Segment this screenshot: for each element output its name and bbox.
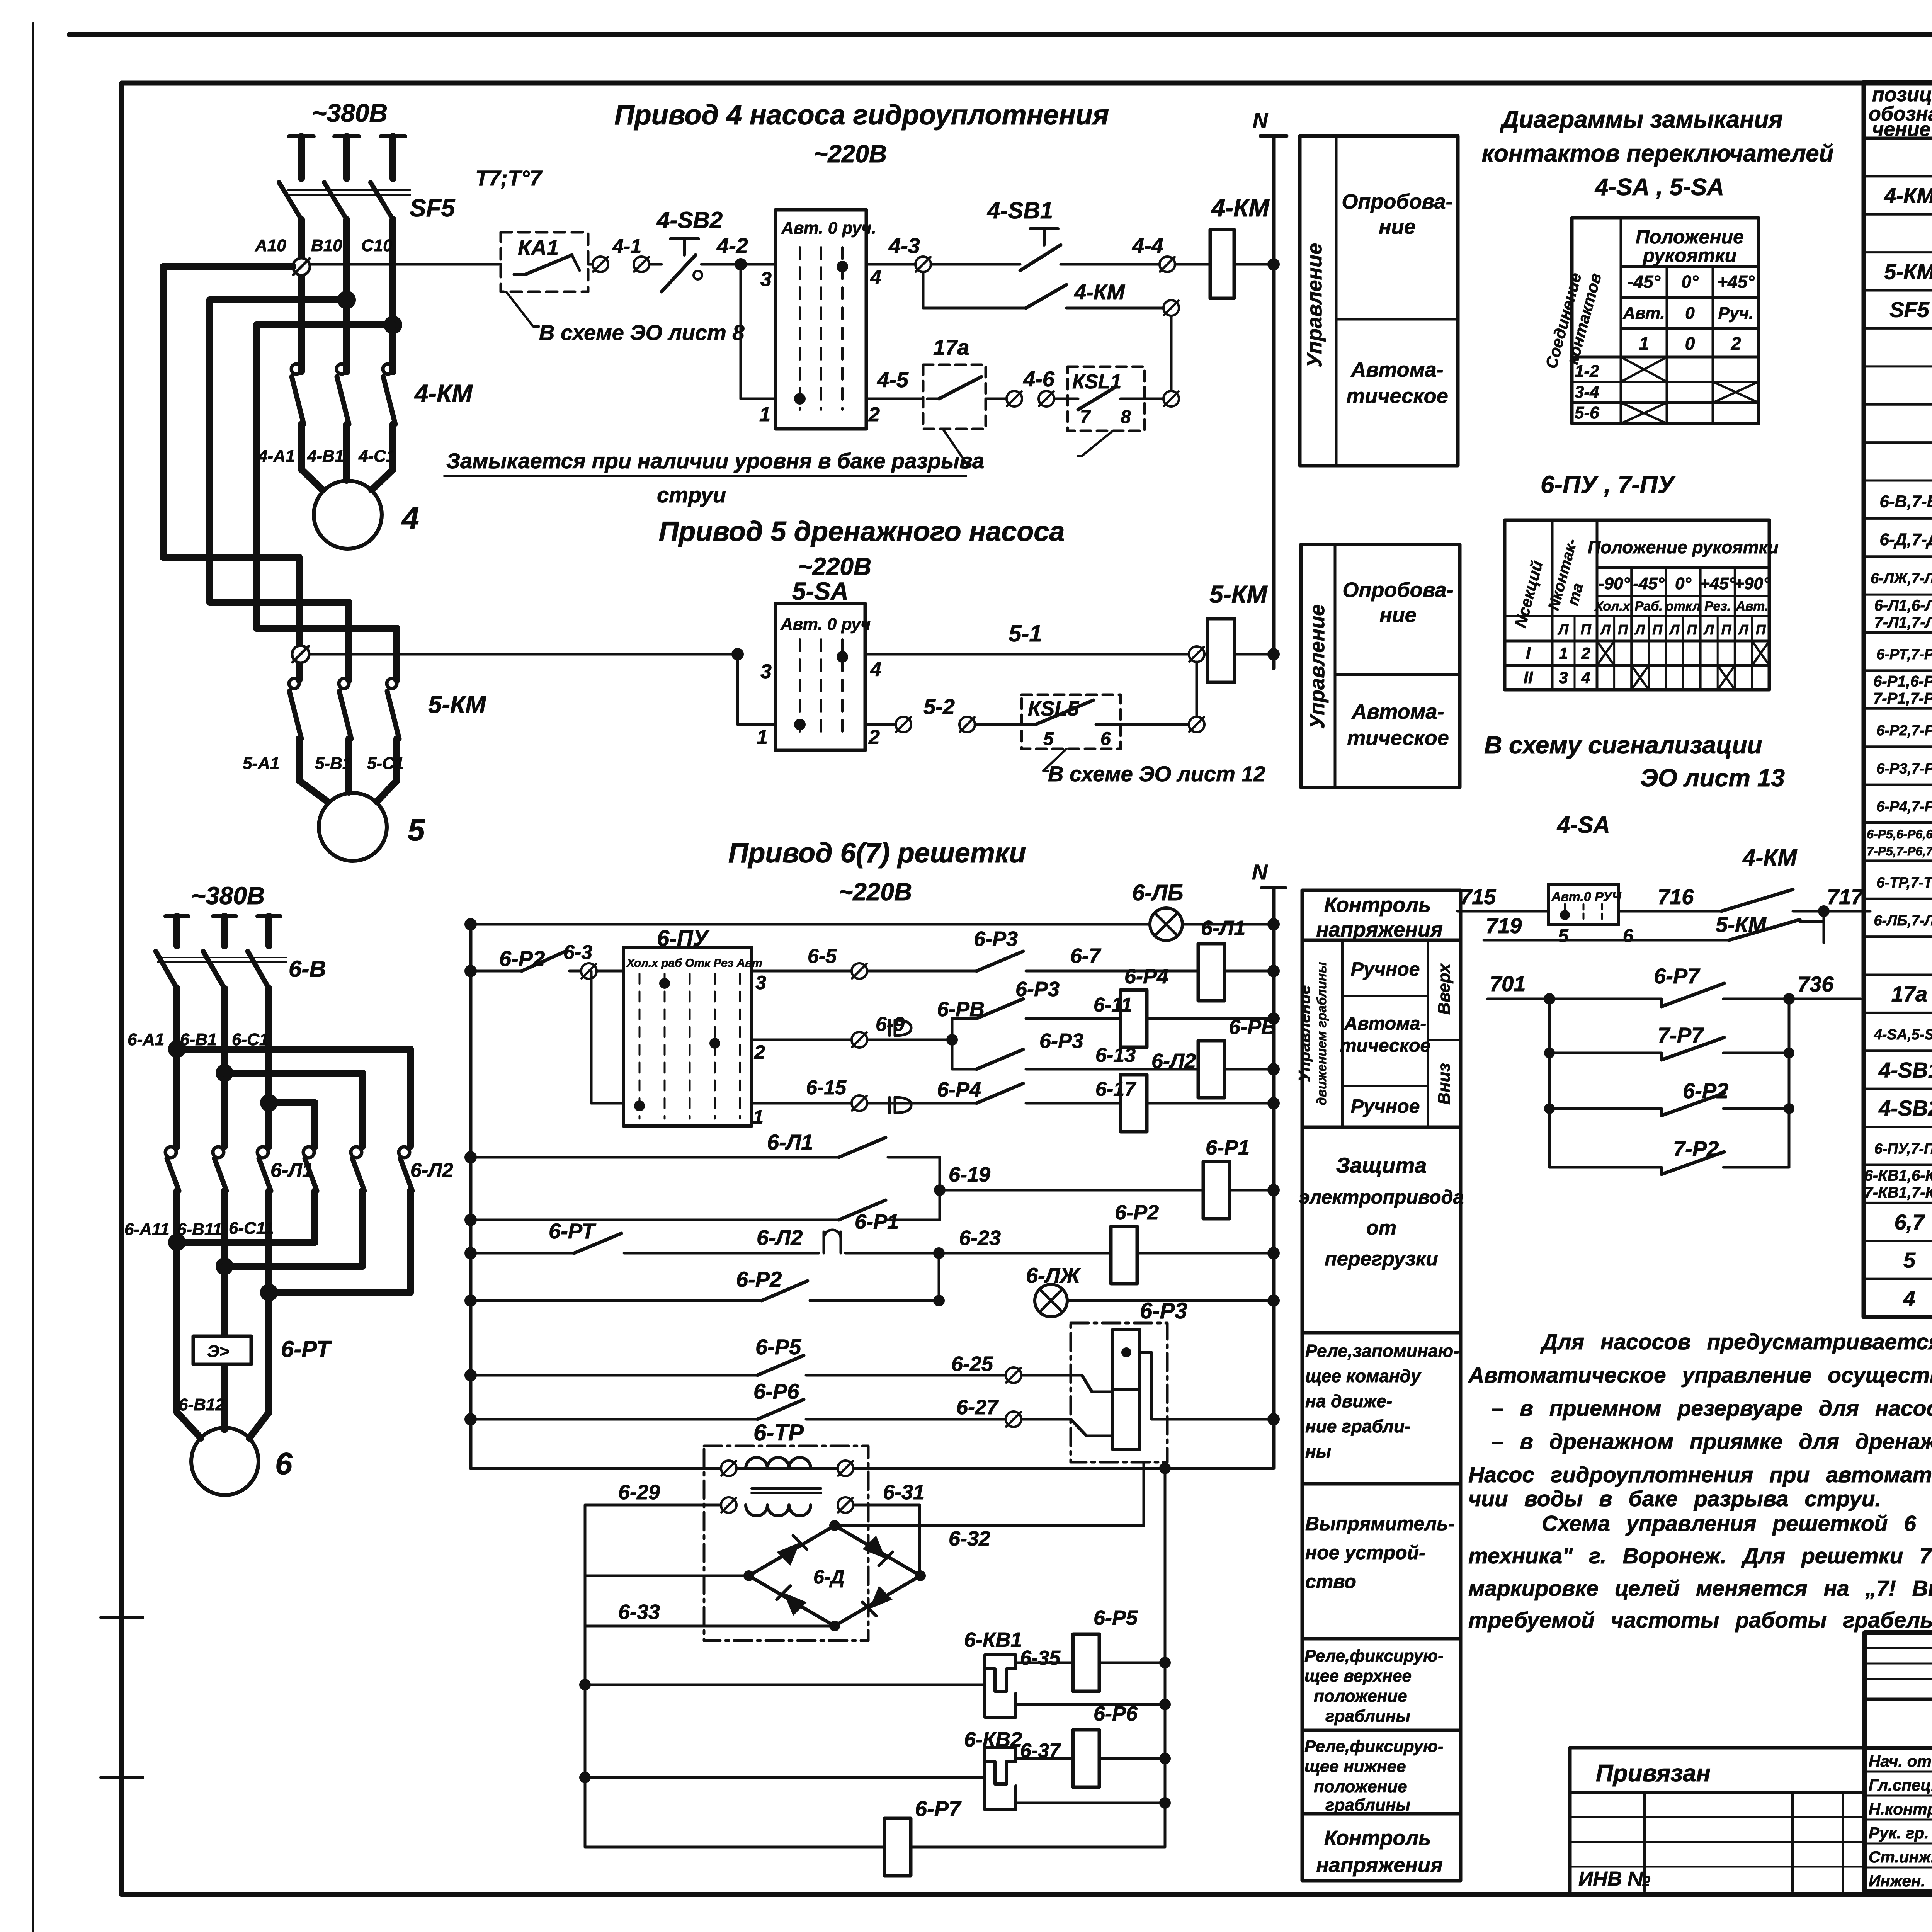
svg-text:тическое: тическое (1340, 1036, 1430, 1056)
svg-text:I: I (1526, 644, 1531, 663)
svg-text:2: 2 (868, 403, 880, 426)
svg-text:3-4: 3-4 (1575, 383, 1599, 401)
svg-text:напряжения: напряжения (1316, 918, 1443, 941)
svg-text:3: 3 (760, 660, 772, 683)
svg-text:Автома-: Автома- (1351, 700, 1444, 723)
svg-text:Опробова-: Опробова- (1342, 578, 1453, 602)
svg-text:контактов переключателей: контактов переключателей (1482, 140, 1834, 167)
svg-text:Гл.спец.: Гл.спец. (1869, 1776, 1932, 1794)
svg-text:напряжения: напряжения (1316, 1854, 1443, 1877)
svg-text:перегрузки: перегрузки (1325, 1248, 1438, 1270)
svg-text:6-27: 6-27 (956, 1396, 999, 1419)
svg-text:7-Р5,7-Р6,7-Р7: 7-Р5,7-Р6,7-Р7 (1867, 844, 1932, 858)
svg-text:6-Д: 6-Д (813, 1566, 845, 1588)
svg-text:Управление: Управление (1295, 985, 1313, 1082)
svg-text:6-Р2,7-Р2: 6-Р2,7-Р2 (1876, 723, 1932, 739)
svg-text:717: 717 (1827, 884, 1864, 909)
svg-text:4: 4 (870, 658, 881, 681)
svg-text:4-КМ: 4-КМ (1211, 194, 1270, 222)
svg-text:требуемой частоты работы гра: требуемой частоты работы грабель и опред… (1468, 1608, 1932, 1633)
svg-text:3: 3 (755, 972, 766, 993)
svg-text:7: 7 (1080, 407, 1091, 427)
svg-text:~220В: ~220В (838, 878, 912, 906)
svg-text:6: 6 (275, 1446, 293, 1481)
svg-text:1: 1 (759, 403, 770, 426)
svg-text:5: 5 (1903, 1248, 1916, 1272)
svg-text:6-Р5,6-Р6,6-Р7: 6-Р5,6-Р6,6-Р7 (1867, 827, 1932, 841)
svg-text:Схема управления решеткой 6: Схема управления решеткой 6 приведена на… (1542, 1511, 1932, 1536)
svg-text:П: П (1721, 622, 1732, 638)
svg-text:7-Л1,7-Л2: 7-Л1,7-Л2 (1874, 614, 1932, 631)
svg-text:Ручное: Ручное (1351, 958, 1420, 980)
svg-text:6-Л2: 6-Л2 (410, 1159, 453, 1182)
svg-text:6-23: 6-23 (959, 1226, 1001, 1250)
svg-text:4-6: 4-6 (1023, 367, 1055, 391)
svg-text:Н.контр.: Н.контр. (1869, 1800, 1932, 1818)
svg-text:Вниз: Вниз (1435, 1063, 1454, 1105)
svg-text:6-Р2: 6-Р2 (1683, 1078, 1728, 1103)
svg-text:Управление: Управление (1303, 243, 1326, 367)
svg-text:6-В,7-В: 6-В,7-В (1879, 492, 1932, 511)
svg-text:6-РТ: 6-РТ (549, 1219, 597, 1243)
svg-text:Защита: Защита (1336, 1153, 1427, 1177)
svg-text:6-Р1: 6-Р1 (855, 1210, 899, 1233)
svg-text:ЭО лист 13: ЭО лист 13 (1640, 764, 1785, 792)
svg-text:Реле,фиксирую-: Реле,фиксирую- (1304, 1646, 1444, 1665)
svg-text:17а: 17а (1891, 982, 1927, 1006)
svg-text:положение: положение (1314, 1687, 1407, 1706)
svg-text:5-SА: 5-SА (792, 577, 849, 605)
svg-text:6-Р5: 6-Р5 (1094, 1606, 1138, 1629)
svg-text:6-С11: 6-С11 (229, 1219, 274, 1238)
svg-text:6-Р6: 6-Р6 (753, 1379, 799, 1403)
svg-text:Авт. 0 руч.: Авт. 0 руч. (781, 219, 876, 238)
svg-text:1: 1 (1559, 644, 1568, 662)
svg-text:Инжен.: Инжен. (1869, 1872, 1925, 1890)
svg-text:4: 4 (1581, 668, 1590, 687)
svg-text:Рез.: Рез. (1704, 599, 1731, 614)
svg-text:КА1: КА1 (518, 235, 559, 260)
svg-text:рукоятки: рукоятки (1642, 245, 1737, 266)
svg-text:Диаграммы замыкания: Диаграммы замыкания (1500, 106, 1783, 133)
svg-text:4-5: 4-5 (877, 367, 909, 392)
svg-text:4-4: 4-4 (1132, 233, 1163, 258)
svg-text:6-Р4,7-Р4: 6-Р4,7-Р4 (1876, 799, 1932, 815)
svg-text:техника" г. Воронеж. Для реш: техника" г. Воронеж. Для решетки 7 схема… (1468, 1544, 1932, 1568)
svg-text:П: П (1756, 622, 1766, 638)
svg-text:6-КВ1,6-КВ2: 6-КВ1,6-КВ2 (1864, 1167, 1932, 1184)
svg-text:-45°: -45° (1628, 272, 1660, 292)
svg-text:Т7;Т°7: Т7;Т°7 (475, 166, 543, 190)
svg-text:тическое: тическое (1347, 726, 1449, 750)
svg-text:6-Л1: 6-Л1 (270, 1159, 313, 1182)
svg-text:4: 4 (870, 266, 881, 289)
svg-text:3: 3 (760, 268, 772, 291)
svg-text:1: 1 (753, 1106, 764, 1128)
svg-text:щее верхнее: щее верхнее (1304, 1667, 1412, 1685)
svg-text:4-SВ1: 4-SВ1 (1878, 1058, 1932, 1082)
svg-text:4-SВ2: 4-SВ2 (1878, 1096, 1932, 1120)
svg-text:6-19: 6-19 (949, 1163, 990, 1186)
svg-text:~220В: ~220В (798, 553, 871, 580)
svg-text:4-SВ1: 4-SВ1 (987, 197, 1053, 223)
svg-text:В схему сигнализации: В схему сигнализации (1484, 731, 1762, 759)
svg-text:N: N (1253, 109, 1268, 132)
svg-text:0: 0 (1685, 304, 1695, 323)
svg-text:С10: С10 (361, 236, 393, 255)
svg-text:Реле,фиксирую-: Реле,фиксирую- (1304, 1737, 1444, 1756)
svg-text:Авт. 0 руч: Авт. 0 руч (780, 615, 871, 634)
svg-text:5: 5 (1558, 926, 1569, 946)
svg-text:4-3: 4-3 (888, 233, 920, 258)
svg-text:Авт.: Авт. (1622, 304, 1665, 323)
svg-text:электропривода: электропривода (1299, 1186, 1464, 1208)
svg-text:6-КВ1: 6-КВ1 (964, 1628, 1022, 1651)
svg-text:17а: 17а (933, 335, 969, 359)
svg-text:4-А1: 4-А1 (258, 447, 295, 466)
svg-text:-90°: -90° (1599, 574, 1630, 593)
svg-text:Ст.инж.: Ст.инж. (1869, 1848, 1932, 1866)
svg-text:2: 2 (1581, 644, 1590, 662)
svg-text:Л: Л (1557, 622, 1569, 638)
svg-text:Реле,запоминаю-: Реле,запоминаю- (1305, 1341, 1459, 1361)
svg-text:ние: ние (1379, 215, 1416, 238)
svg-text:6-Р3,7-Р3: 6-Р3,7-Р3 (1876, 760, 1932, 777)
svg-text:ное устрой-: ное устрой- (1305, 1542, 1425, 1563)
svg-text:Привязан: Привязан (1596, 1760, 1711, 1787)
svg-text:4-1: 4-1 (612, 235, 641, 258)
svg-text:Л: Л (1668, 622, 1680, 638)
svg-text:0°: 0° (1675, 574, 1691, 593)
svg-text:6-ЛЖ,7-ЛЖ: 6-ЛЖ,7-ЛЖ (1871, 570, 1932, 587)
svg-text:Положение рукоятки: Положение рукоятки (1588, 537, 1779, 557)
svg-text:5-КМ: 5-КМ (1209, 580, 1268, 608)
svg-text:716: 716 (1658, 884, 1694, 909)
svg-text:+45°: +45° (1717, 272, 1755, 292)
svg-text:2: 2 (754, 1041, 765, 1063)
svg-text:6-ТР: 6-ТР (753, 1420, 804, 1446)
svg-text:6-Л1,6-Л2: 6-Л1,6-Л2 (1874, 597, 1932, 614)
svg-text:4-В1: 4-В1 (307, 447, 344, 466)
svg-text:6-Д,7-Д: 6-Д,7-Д (1879, 530, 1932, 549)
svg-text:– в дренажном приямке для д: – в дренажном приямке для дренажного нас… (1492, 1429, 1932, 1454)
svg-text:2: 2 (1731, 333, 1741, 354)
svg-text:Хол.х.: Хол.х. (1594, 599, 1634, 614)
svg-text:5-КМ: 5-КМ (1884, 259, 1932, 284)
svg-text:ство: ство (1305, 1571, 1356, 1592)
svg-text:движением граблины: движением граблины (1315, 962, 1329, 1105)
svg-text:В схеме ЭО лист 12: В схеме ЭО лист 12 (1048, 762, 1265, 786)
svg-text:6-17: 6-17 (1095, 1078, 1136, 1100)
svg-text:6-Р3: 6-Р3 (1015, 978, 1060, 1001)
svg-text:струи: струи (657, 483, 726, 507)
svg-text:6-Р7: 6-Р7 (915, 1796, 962, 1821)
svg-text:715: 715 (1460, 884, 1496, 909)
svg-text:4-КМ: 4-КМ (1884, 184, 1932, 208)
svg-text:Насос гидроуплотнения при а: Насос гидроуплотнения при автоматическом… (1468, 1463, 1932, 1487)
svg-text:Опробова-: Опробова- (1342, 190, 1452, 213)
svg-text:0°: 0° (1682, 272, 1699, 292)
svg-text:7-Р1,7-РВ: 7-Р1,7-РВ (1873, 690, 1932, 707)
svg-text:Авт.0 РУЧ: Авт.0 РУЧ (1551, 889, 1622, 904)
svg-text:Привод 4 насоса гидроуплот: Привод 4 насоса гидроуплотнения (614, 100, 1109, 131)
svg-text:-45°: -45° (1633, 574, 1665, 593)
svg-text:N: N (1252, 860, 1268, 884)
svg-text:5: 5 (408, 813, 425, 847)
svg-text:6-33: 6-33 (618, 1600, 660, 1624)
svg-text:6-32: 6-32 (949, 1527, 990, 1550)
svg-text:5-1: 5-1 (1009, 621, 1042, 646)
svg-text:Рук. гр.: Рук. гр. (1869, 1824, 1929, 1842)
svg-text:Привод 5 дренажного насос: Привод 5 дренажного насоса (659, 516, 1065, 547)
svg-text:Л: Л (1600, 622, 1611, 638)
svg-text:6,7: 6,7 (1895, 1210, 1926, 1234)
svg-text:6-Р1: 6-Р1 (1206, 1136, 1250, 1159)
svg-text:6-Л1: 6-Л1 (1201, 917, 1245, 940)
svg-text:тическое: тическое (1346, 384, 1448, 408)
svg-text:6-ЛБ: 6-ЛБ (1132, 880, 1183, 905)
svg-text:маркировке целей меняется н: маркировке целей меняется на „7! Выдержк… (1468, 1576, 1932, 1601)
svg-text:736: 736 (1798, 972, 1834, 996)
svg-text:6-Р3: 6-Р3 (1039, 1029, 1083, 1053)
svg-text:4-КМ: 4-КМ (1742, 845, 1798, 871)
svg-text:6-ПУ,7-ПУ: 6-ПУ,7-ПУ (1874, 1141, 1932, 1157)
svg-text:701: 701 (1490, 971, 1526, 996)
svg-text:~380В: ~380В (312, 99, 388, 127)
svg-text:0: 0 (1685, 333, 1695, 354)
svg-text:чение: чение (1872, 118, 1930, 141)
svg-text:6-Р5: 6-Р5 (755, 1335, 801, 1359)
svg-text:7-Р2: 7-Р2 (1673, 1136, 1719, 1161)
svg-text:SF5: SF5 (1889, 298, 1930, 322)
svg-text:ны: ны (1305, 1441, 1331, 1461)
svg-text:6-А11: 6-А11 (124, 1220, 170, 1239)
svg-text:В схеме ЭО лист 8: В схеме ЭО лист 8 (539, 320, 745, 345)
svg-text:5-6: 5-6 (1575, 403, 1599, 422)
svg-text:ние: ние (1379, 604, 1417, 627)
svg-text:Привод 6(7) решетки: Привод 6(7) решетки (728, 838, 1026, 869)
svg-text:6-5: 6-5 (808, 945, 837, 968)
svg-text:Автома-: Автома- (1350, 358, 1443, 381)
svg-text:Управление: Управление (1306, 604, 1329, 729)
svg-text:П: П (1687, 622, 1697, 638)
svg-text:6-В12: 6-В12 (179, 1395, 225, 1414)
svg-text:5-А1: 5-А1 (243, 754, 279, 773)
svg-text:~380В: ~380В (191, 882, 265, 910)
svg-text:4-2: 4-2 (716, 233, 748, 258)
svg-text:5-КМ: 5-КМ (428, 690, 486, 718)
svg-text:6-Р6: 6-Р6 (1094, 1702, 1138, 1725)
svg-text:Нач. отд: Нач. отд (1869, 1752, 1932, 1770)
svg-text:6-РТ: 6-РТ (281, 1336, 332, 1362)
svg-text:Авт.: Авт. (1735, 599, 1768, 614)
svg-text:7-КВ1,7-КВ2: 7-КВ1,7-КВ2 (1864, 1184, 1932, 1201)
svg-text:6-Р2: 6-Р2 (736, 1267, 782, 1291)
svg-text:6-Р4: 6-Р4 (1124, 965, 1168, 988)
svg-text:откл: откл (1666, 599, 1701, 614)
svg-text:6-В11: 6-В11 (177, 1220, 222, 1239)
svg-text:6-3: 6-3 (563, 941, 592, 964)
svg-text:2: 2 (868, 726, 880, 748)
svg-text:3: 3 (1559, 668, 1568, 687)
svg-text:граблины: граблины (1325, 1707, 1410, 1726)
svg-text:6-Р3: 6-Р3 (974, 927, 1018, 951)
svg-text:щее нижнее: щее нижнее (1304, 1757, 1406, 1776)
svg-text:Э>: Э> (207, 1342, 229, 1361)
svg-text:4-SA,5-SA: 4-SA,5-SA (1874, 1027, 1932, 1043)
svg-text:6-РВ: 6-РВ (1229, 1015, 1276, 1039)
svg-text:6-13: 6-13 (1095, 1044, 1136, 1066)
svg-text:+45°: +45° (1700, 574, 1736, 593)
svg-text:8: 8 (1121, 407, 1131, 427)
svg-text:Л: Л (1634, 622, 1645, 638)
svg-text:Раб.: Раб. (1635, 599, 1663, 614)
svg-text:П: П (1580, 622, 1591, 638)
svg-text:6-Л1: 6-Л1 (767, 1130, 813, 1154)
svg-text:5-2: 5-2 (923, 694, 955, 719)
svg-text:от: от (1366, 1217, 1396, 1239)
svg-text:Для насосов предусматривается: Для насосов предусматривается два вида у… (1540, 1330, 1932, 1354)
svg-text:6: 6 (1623, 926, 1633, 946)
svg-text:1: 1 (1639, 333, 1649, 354)
svg-text:Автома-: Автома- (1344, 1014, 1427, 1034)
svg-text:1: 1 (757, 726, 768, 748)
svg-text:SF5: SF5 (410, 194, 456, 222)
svg-text:6-Р3: 6-Р3 (1140, 1298, 1187, 1323)
svg-text:6-ЛБ,7-ЛБ: 6-ЛБ,7-ЛБ (1874, 913, 1932, 929)
svg-text:6-Л2: 6-Л2 (1151, 1049, 1196, 1073)
svg-text:П: П (1652, 622, 1663, 638)
svg-text:6-ЛЖ: 6-ЛЖ (1026, 1263, 1081, 1287)
svg-text:6-11: 6-11 (1094, 994, 1132, 1016)
svg-text:чии воды в баке разрыва ст: чии воды в баке разрыва струи. (1468, 1486, 1881, 1511)
svg-text:6-Р7: 6-Р7 (1654, 964, 1701, 988)
svg-text:6-ПУ , 7-ПУ: 6-ПУ , 7-ПУ (1541, 471, 1676, 498)
svg-text:6-35: 6-35 (1020, 1647, 1061, 1669)
svg-text:6-Р1,6-РВ: 6-Р1,6-РВ (1873, 673, 1932, 690)
svg-text:6-ТР,7-ТР: 6-ТР,7-ТР (1876, 875, 1932, 891)
svg-text:Хол.х раб Отк Рез Авт: Хол.х раб Отк Рез Авт (626, 957, 762, 969)
svg-text:граблины: граблины (1325, 1796, 1410, 1815)
svg-text:Замыкается при наличии уровн: Замыкается при наличии уровня в баке раз… (446, 449, 984, 473)
svg-text:6-Р2: 6-Р2 (1115, 1201, 1159, 1224)
svg-text:6-15: 6-15 (806, 1077, 847, 1099)
svg-text:В10: В10 (311, 236, 342, 255)
svg-text:6-25: 6-25 (951, 1352, 993, 1376)
svg-text:Вверх: Вверх (1435, 963, 1454, 1015)
svg-text:4-SВ2: 4-SВ2 (656, 207, 723, 233)
svg-text:4: 4 (401, 501, 419, 535)
svg-text:ИНВ №: ИНВ № (1578, 1868, 1651, 1890)
svg-text:7-Р7: 7-Р7 (1658, 1023, 1704, 1047)
svg-text:4-SА , 5-SА: 4-SА , 5-SА (1594, 174, 1724, 201)
svg-text:+90°: +90° (1734, 574, 1770, 593)
svg-text:ние грабли-: ние грабли- (1305, 1416, 1410, 1436)
svg-text:на движе-: на движе- (1305, 1391, 1392, 1411)
svg-text:6-А1: 6-А1 (128, 1030, 164, 1049)
svg-text:– в приемном резервуаре для: – в приемном резервуаре для насоса гидро… (1492, 1396, 1932, 1421)
svg-text:6-РТ,7-РТ: 6-РТ,7-РТ (1876, 646, 1932, 663)
svg-text:Контроль: Контроль (1324, 893, 1431, 917)
svg-text:~220В: ~220В (813, 140, 887, 168)
svg-text:II: II (1524, 668, 1533, 687)
svg-text:6-Л2: 6-Л2 (757, 1225, 803, 1250)
svg-text:5: 5 (1043, 729, 1054, 749)
svg-text:П: П (1618, 622, 1628, 638)
svg-text:6-29: 6-29 (618, 1481, 660, 1504)
svg-text:4-SА: 4-SА (1557, 812, 1610, 838)
svg-text:4-КМ: 4-КМ (1074, 280, 1125, 304)
svg-text:положение: положение (1314, 1777, 1407, 1796)
svg-text:6: 6 (1100, 729, 1111, 749)
svg-text:6-В: 6-В (289, 956, 326, 982)
svg-text:6-Р2: 6-Р2 (499, 946, 545, 971)
svg-text:Контроль: Контроль (1324, 1827, 1431, 1850)
svg-text:6-7: 6-7 (1070, 944, 1102, 968)
svg-text:719: 719 (1486, 913, 1522, 938)
svg-text:6-31: 6-31 (883, 1481, 925, 1504)
svg-text:6-Р4: 6-Р4 (937, 1078, 981, 1101)
svg-text:щее команду: щее команду (1305, 1366, 1422, 1386)
svg-text:Автоматическое управление ос: Автоматическое управление осуществляется… (1468, 1363, 1932, 1388)
svg-text:Л: Л (1738, 622, 1749, 638)
svg-text:Л: Л (1703, 622, 1714, 638)
svg-text:Ручное: Ручное (1351, 1095, 1420, 1117)
svg-text:5-КМ: 5-КМ (1716, 912, 1767, 937)
svg-text:Выпрямитель-: Выпрямитель- (1305, 1513, 1455, 1534)
svg-text:Руч.: Руч. (1718, 304, 1754, 323)
svg-text:4-КМ: 4-КМ (414, 379, 473, 407)
svg-text:А10: А10 (255, 236, 286, 255)
svg-text:4: 4 (1903, 1286, 1915, 1310)
svg-text:1-2: 1-2 (1575, 362, 1599, 381)
